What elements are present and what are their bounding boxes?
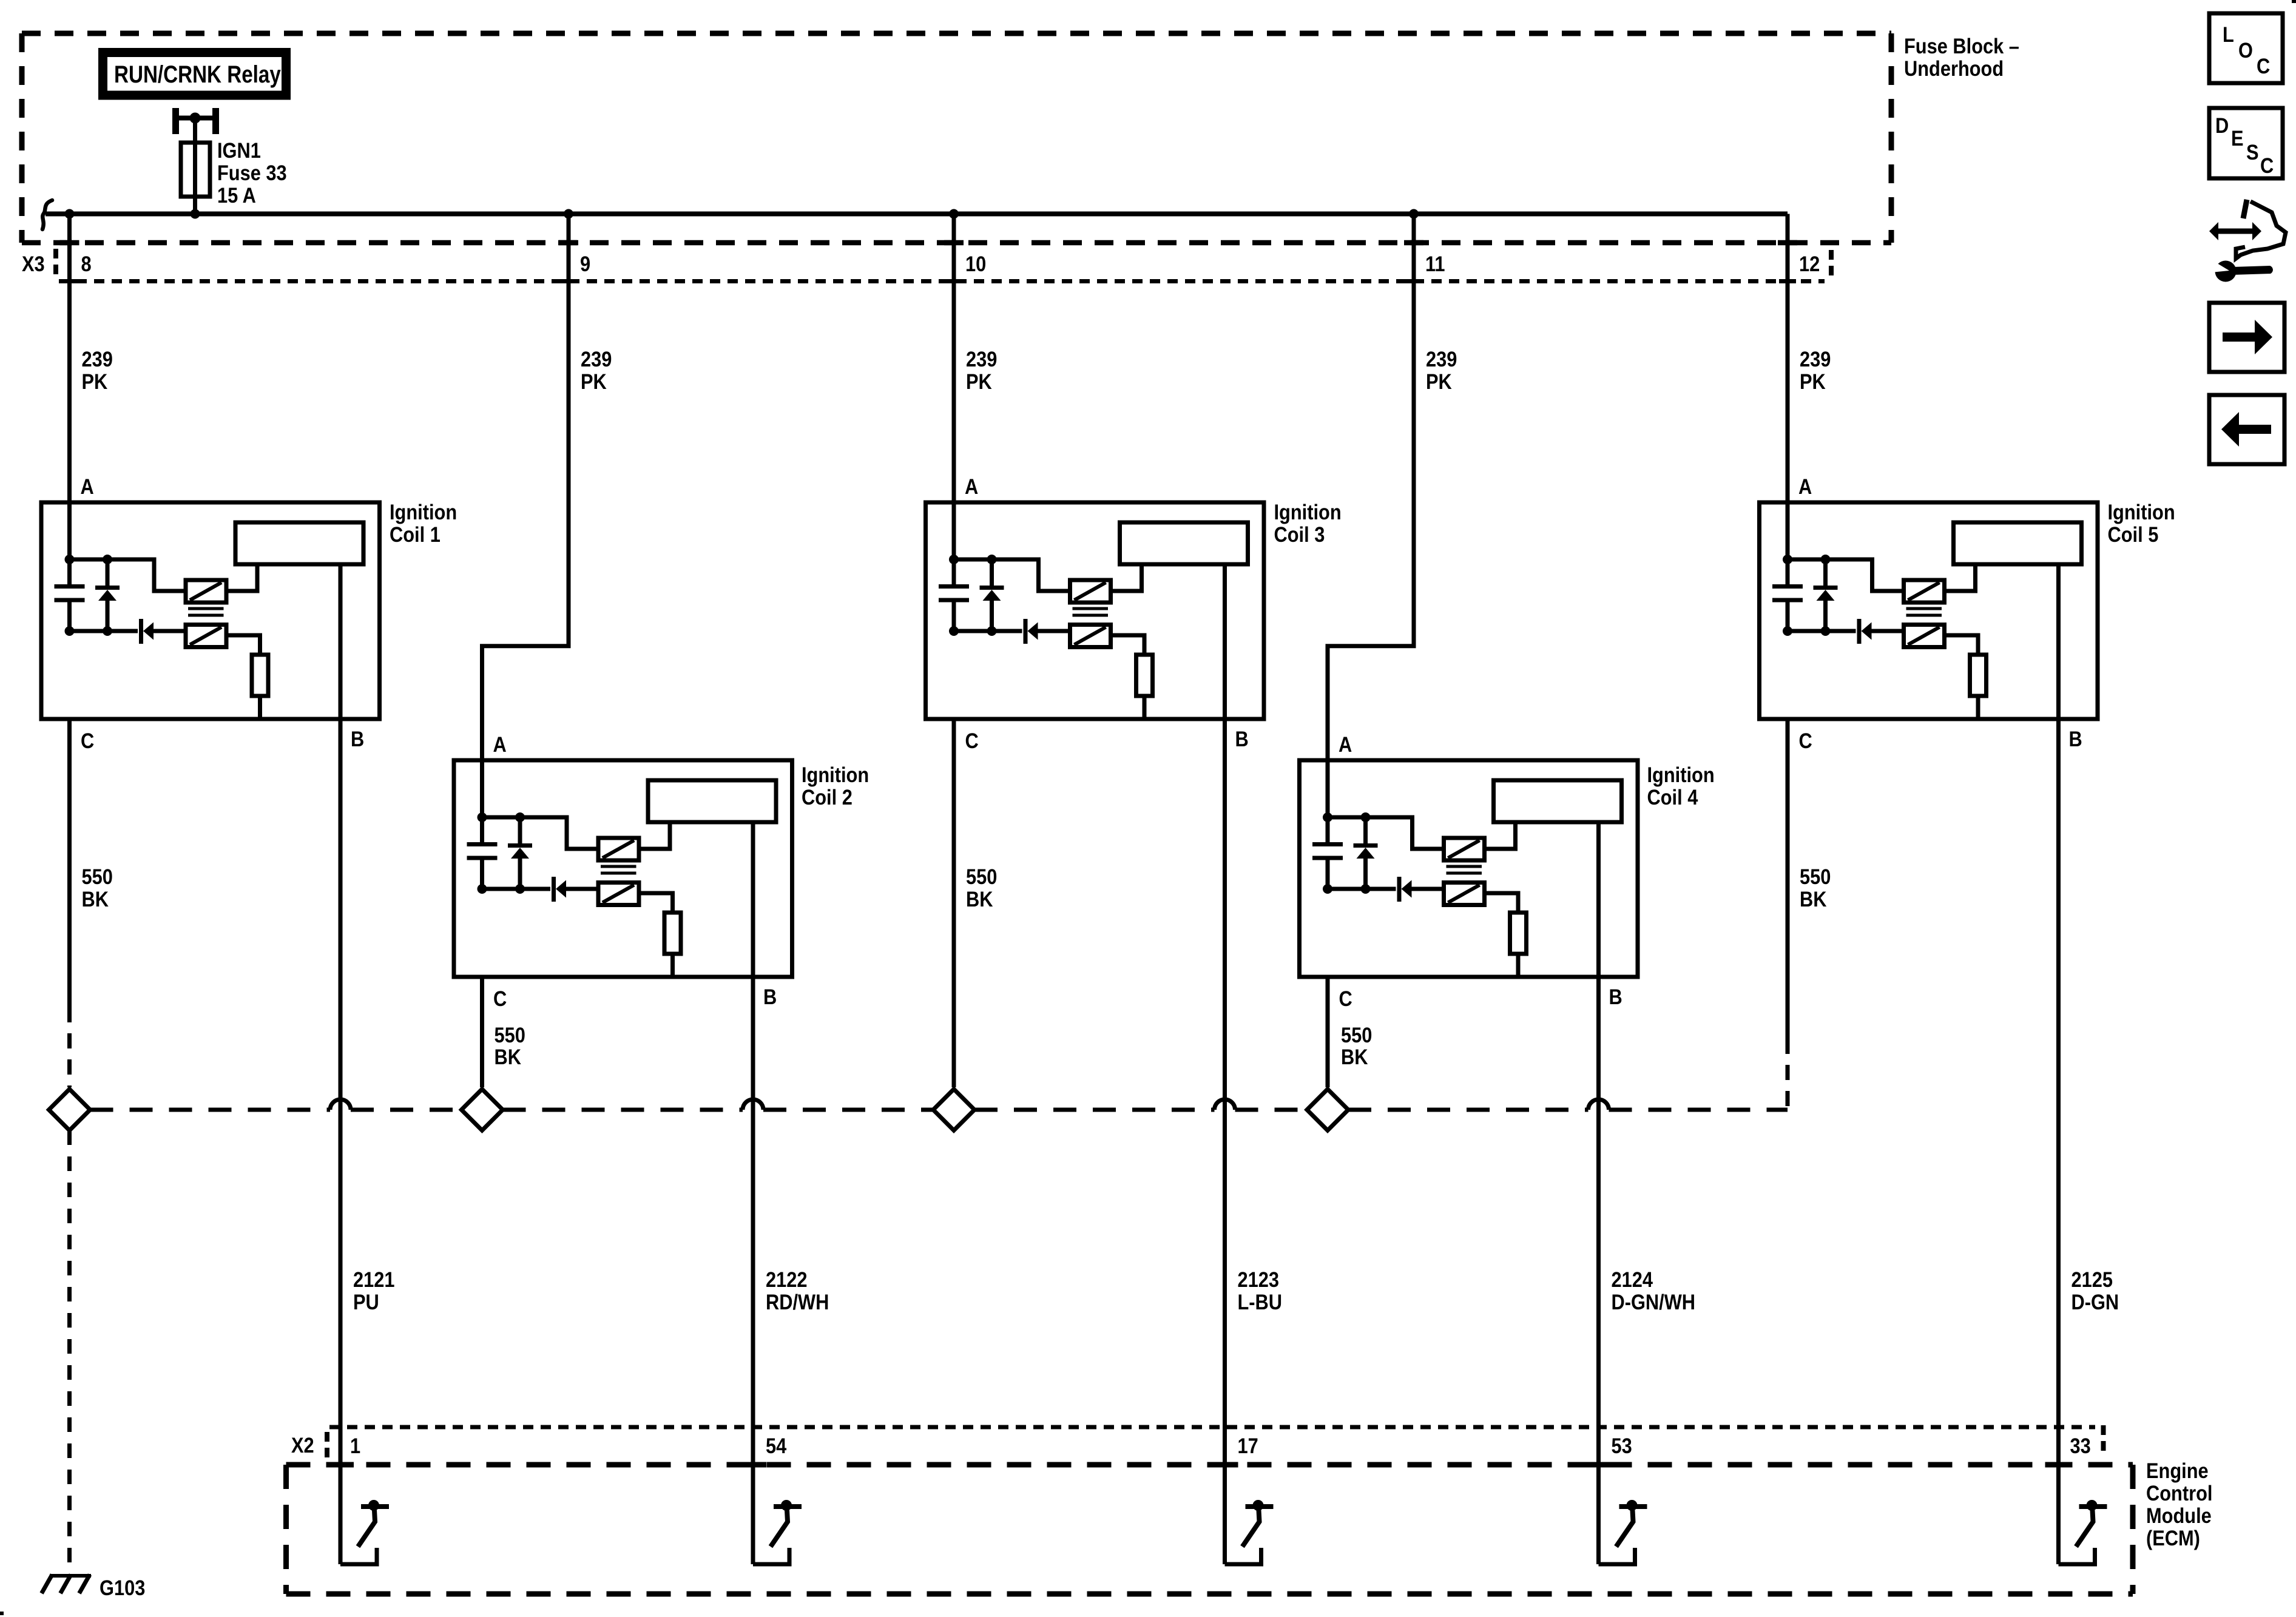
svg-text:BK: BK [1800,887,1827,911]
svg-text:A: A [1798,474,1812,498]
svg-text:O: O [2238,38,2253,62]
svg-text:RD/WH: RD/WH [766,1290,829,1314]
splice diamond S1 (coil1) [49,1089,90,1130]
svg-text:239: 239 [82,347,113,371]
splice ground bus dashed segment 4 [763,1108,933,1112]
junction dot bus/pin8 [65,209,75,219]
hop over wire 2124 [1589,1099,1609,1110]
wire 2121 PU from coil B to ECM [339,564,343,1564]
svg-text:Ignition: Ignition [2108,500,2175,524]
junction dots (Ignition Coil 4) [1323,812,1332,822]
svg-text:239: 239 [1426,347,1457,371]
junction dot bus/fuse [191,209,200,219]
wire 550 BK from coil 5 pin C (dashed to splice) [1786,1039,1790,1110]
svg-text:A: A [1339,732,1352,756]
relay pin bracket [172,108,179,134]
wire pin A inside (Ignition Coil 3) [952,502,956,559]
svg-text:17: 17 [1238,1434,1258,1457]
junction dot at relay pin [190,113,201,124]
wire secondary to resistor (Ignition Coil 5) [1945,635,1979,655]
fuse block underhood dashed box (left border) [19,33,25,243]
svg-text:BK: BK [1341,1045,1368,1068]
junction dots (Ignition Coil 1) [65,555,75,564]
wire secondary to resistor (Ignition Coil 1) [226,635,260,655]
junction dot bus/pin10 [949,209,959,219]
splice diamond S2 (coil2) [462,1089,503,1130]
resistor (Ignition Coil 1) [252,655,268,696]
capacitor (Ignition Coil 5) [1786,559,1790,585]
svg-text:Fuse Block –: Fuse Block – [1904,34,2019,58]
resistor (Ignition Coil 4) [1510,913,1527,954]
connector ticks on fuse-block bottom line at wires [60,240,79,246]
wire primary to driver block (Ignition Coil 4) [1485,825,1516,849]
coil driver block (Ignition Coil 3) [1120,522,1248,564]
ECM dashed box right border [2130,1465,2136,1594]
ignition coil 2 module box [454,760,792,977]
wire 550 BK from coil 2 pin C [480,977,484,1087]
wire primary to driver block (Ignition Coil 5) [1945,567,1976,592]
node top rail (Ignition Coil 2) [482,817,599,849]
splice diamond S4 (coil4) [1307,1089,1348,1130]
diode D2 series (Ignition Coil 2) [552,877,556,902]
svg-text:C: C [965,729,979,752]
hop over wire 2121 [330,1099,351,1110]
svg-text:15 A: 15 A [217,183,256,207]
coil driver block (Ignition Coil 5) [1954,522,2082,564]
svg-text:PU: PU [353,1290,379,1314]
icon box arrow left [2209,395,2284,464]
svg-text:550: 550 [1341,1023,1372,1047]
transformer primary winding (Ignition Coil 4) [1444,838,1485,860]
transformer secondary winding (Ignition Coil 4) [1444,883,1485,905]
diode D1 vertical (Ignition Coil 5) [1823,559,1828,586]
page corner mark top-right [2292,0,2296,3]
wire pin B inside (Ignition Coil 4) [1596,822,1601,977]
wire 239 PK to coil 4 pin A (jog) [1328,214,1414,818]
wire 239 PK to coil 1 pin A [67,214,72,560]
svg-text:B: B [2069,727,2082,751]
node bottom rail (Ignition Coil 4) [1328,887,1396,891]
wire secondary to resistor (Ignition Coil 3) [1111,635,1145,655]
wire: ignition feed bus inside fuse block [46,212,1788,217]
svg-text:2124: 2124 [1612,1268,1653,1291]
resistor lead to case (Ignition Coil 4) [1516,954,1521,979]
svg-text:Underhood: Underhood [1904,56,2004,80]
junction dots (Ignition Coil 2) [478,812,487,822]
svg-text:A: A [81,474,94,498]
resistor lead to case (Ignition Coil 3) [1143,696,1147,721]
connector X3 separator dashes [53,249,58,274]
svg-text:D-GN/WH: D-GN/WH [1612,1290,1696,1314]
transformer primary winding (Ignition Coil 1) [186,580,226,603]
wire pin A inside (Ignition Coil 5) [1786,502,1790,559]
connector X2 dotted line [329,1425,2095,1430]
wire 550 BK from coil 1 pin C (dashed) [67,1007,72,1087]
transformer secondary winding (Ignition Coil 2) [598,883,639,905]
svg-text:550: 550 [966,865,997,888]
splice ground bus dashed segment 1 [90,1108,331,1112]
svg-text:239: 239 [966,347,997,371]
wire 550 BK from coil 1 pin C (solid) [67,719,72,1007]
node top rail (Ignition Coil 4) [1328,817,1444,849]
wire 239 PK to coil 3 pin A [952,214,956,560]
svg-text:54: 54 [766,1434,787,1457]
splice ground bus dashed segment 7 [1348,1108,1589,1112]
svg-text:C: C [1799,729,1812,752]
ECM driver switch at pin (wire 2122) [753,1548,789,1564]
svg-text:C: C [1339,987,1352,1010]
ground symbol G103 [50,1574,91,1578]
ECM dashed box bottom border [286,1592,2133,1597]
transformer core (Ignition Coil 1) [188,607,224,610]
wire secondary to resistor (Ignition Coil 2) [639,893,673,913]
wire pin A inside (Ignition Coil 1) [67,502,72,559]
diode D2 series (Ignition Coil 5) [1857,619,1862,644]
svg-text:Coil 1: Coil 1 [390,522,441,546]
svg-text:B: B [1609,985,1622,1008]
svg-text:BK: BK [495,1045,522,1068]
svg-text:C: C [81,729,94,752]
splice ground bus dashed segment 2 [351,1108,462,1112]
svg-text:(ECM): (ECM) [2146,1526,2200,1550]
svg-text:Ignition: Ignition [390,500,457,524]
wire 2125 D-GN from coil B to ECM [2056,564,2061,1564]
transformer secondary winding (Ignition Coil 3) [1070,625,1111,647]
svg-text:Coil 2: Coil 2 [802,785,853,809]
splice ground bus dashed segment 3 [503,1108,743,1112]
svg-text:E: E [2231,126,2244,150]
resistor lead to case (Ignition Coil 2) [670,954,675,979]
svg-text:S: S [2246,140,2259,164]
svg-text:BK: BK [966,887,993,911]
ECM dashed box left border [283,1465,289,1594]
node bottom rail (Ignition Coil 5) [1788,629,1856,633]
ignition coil 4 module box [1300,760,1638,977]
ignition coil 3 module box [926,502,1264,719]
wire from relay to fuse [193,118,197,145]
node bottom rail (Ignition Coil 1) [70,629,138,633]
svg-text:2122: 2122 [766,1268,807,1291]
pin 12 separator dashes [1829,250,1834,275]
svg-text:PK: PK [581,370,607,393]
svg-text:Ignition: Ignition [802,763,869,786]
svg-text:IGN1: IGN1 [217,138,261,162]
ignition coil 5 module box [1760,502,2098,719]
wire pin B inside (Ignition Coil 3) [1223,564,1227,719]
hop over wire 2123 [1215,1099,1235,1110]
connector X2 separator dashes [325,1432,329,1457]
node top rail (Ignition Coil 1) [70,559,186,591]
svg-text:1: 1 [350,1434,360,1457]
svg-text:PK: PK [1426,370,1452,393]
resistor (Ignition Coil 3) [1136,655,1153,696]
transformer core (Ignition Coil 5) [1906,607,1942,610]
svg-text:L: L [2223,22,2234,46]
ECM driver switch at pin (wire 2124) [1599,1548,1635,1564]
wire 2123 L-BU from coil B to ECM [1223,564,1227,1564]
wire continuation curl at left bus end [42,200,52,229]
wire primary to driver block (Ignition Coil 1) [226,567,257,592]
transformer primary winding (Ignition Coil 2) [598,838,639,860]
svg-text:Coil 5: Coil 5 [2108,522,2159,546]
svg-text:X2: X2 [291,1433,314,1457]
wire pin A inside (Ignition Coil 2) [480,760,484,817]
icon tool/harness (double arrow) [2218,229,2253,234]
svg-text:239: 239 [1800,347,1831,371]
transformer core (Ignition Coil 3) [1073,607,1109,610]
resistor lead to case (Ignition Coil 5) [1976,696,1980,721]
wire pin B inside (Ignition Coil 2) [751,822,755,977]
diode D1 vertical (Ignition Coil 2) [518,817,522,843]
svg-text:C: C [2257,54,2270,78]
diode D1 vertical (Ignition Coil 3) [990,559,994,586]
node bottom rail (Ignition Coil 3) [954,629,1022,633]
transformer core (Ignition Coil 2) [601,865,636,868]
transformer secondary winding (Ignition Coil 1) [186,625,226,647]
splice ground bus dashed segment 6 [1235,1108,1308,1112]
wire 239 PK to coil 2 pin A (jog) [482,214,569,818]
svg-text:B: B [763,985,777,1008]
fuse block underhood dashed box (top border) [22,31,1891,36]
svg-text:Control: Control [2146,1481,2212,1505]
node top rail (Ignition Coil 5) [1788,559,1904,591]
svg-text:A: A [493,732,507,756]
transformer secondary winding (Ignition Coil 5) [1904,625,1945,647]
diode D2 series (Ignition Coil 1) [139,619,143,644]
splice diamond S3 (coil3) [933,1089,974,1130]
svg-text:PK: PK [1800,370,1826,393]
svg-text:BK: BK [82,887,109,911]
svg-text:C: C [2260,154,2274,177]
svg-text:9: 9 [580,252,590,275]
wire primary to driver block (Ignition Coil 2) [639,825,670,849]
resistor (Ignition Coil 2) [664,913,681,954]
wire 239 PK to coil 5 pin A [1786,214,1790,560]
coil driver block (Ignition Coil 2) [648,780,776,822]
capacitor (Ignition Coil 2) [480,817,484,843]
pin 33 separator dashes [2101,1425,2106,1457]
wire through fuse to bus [193,144,197,214]
svg-text:12: 12 [1799,252,1820,275]
page corner mark bottom-left [0,1612,4,1615]
svg-text:RUN/CRNK Relay: RUN/CRNK Relay [114,61,281,88]
ECM driver switch at pin (wire 2121) [340,1548,377,1564]
svg-text:2121: 2121 [353,1268,394,1291]
capacitor (Ignition Coil 4) [1326,817,1330,843]
diode D1 vertical (Ignition Coil 4) [1363,817,1368,843]
fuse block underhood dashed box (bottom border / connector X3 top line) [22,240,1891,246]
ground lead dashed below splice [67,1130,72,1574]
wire pin B inside (Ignition Coil 5) [2056,564,2061,719]
wire 550 BK from coil 4 pin C [1326,977,1330,1087]
svg-text:550: 550 [495,1023,525,1047]
fuse IGN1 Fuse 33 15A (rectangle) [181,143,210,197]
wire 2122 RD/WH from coil B to ECM [751,822,755,1564]
node top rail (Ignition Coil 3) [954,559,1070,591]
relay RUN/CRNK Relay box [103,53,286,96]
wire 550 BK from coil 5 pin C (solid) [1786,719,1790,1039]
diode D2 series (Ignition Coil 4) [1397,877,1402,902]
svg-text:2125: 2125 [2071,1268,2113,1291]
svg-text:Ignition: Ignition [1274,500,1342,524]
icon box LOC [2209,13,2283,83]
connector X3 dotted line [59,279,1825,283]
wire secondary to resistor (Ignition Coil 4) [1485,893,1519,913]
transformer core (Ignition Coil 4) [1447,865,1482,868]
svg-text:PK: PK [82,370,108,393]
svg-text:PK: PK [966,370,992,393]
svg-text:Fuse 33: Fuse 33 [217,161,287,184]
svg-text:Engine: Engine [2146,1459,2209,1482]
svg-text:2123: 2123 [1238,1268,1279,1291]
transformer primary winding (Ignition Coil 5) [1904,580,1945,603]
hop over wire 2122 [743,1099,763,1110]
svg-text:G103: G103 [100,1576,145,1599]
coil driver block (Ignition Coil 4) [1494,780,1622,822]
svg-text:B: B [351,727,364,751]
svg-text:A: A [965,474,978,498]
fuse block underhood dashed box (right border) [1889,33,1894,243]
svg-text:33: 33 [2070,1434,2091,1457]
coil driver block (Ignition Coil 1) [235,522,363,564]
junction dot bus/pin11 [1409,209,1419,219]
svg-text:B: B [1235,727,1249,751]
capacitor (Ignition Coil 3) [952,559,956,585]
icon tool/harness (wrench) [2232,266,2273,275]
transformer primary winding (Ignition Coil 3) [1070,580,1111,603]
svg-text:Ignition: Ignition [1647,763,1715,786]
svg-text:D: D [2215,113,2229,137]
junction dot bus/pin9 [564,209,573,219]
ECM dashed box top border [286,1462,2133,1468]
svg-text:L-BU: L-BU [1238,1290,1283,1314]
ignition coil 1 module box [41,502,380,719]
svg-text:X3: X3 [22,252,45,275]
svg-text:550: 550 [82,865,113,888]
wire pin A inside (Ignition Coil 4) [1326,760,1330,817]
capacitor (Ignition Coil 1) [67,559,72,585]
svg-text:Module: Module [2146,1504,2212,1527]
svg-text:239: 239 [581,347,612,371]
svg-text:8: 8 [81,252,92,275]
svg-text:11: 11 [1425,252,1445,275]
icon box arrow right [2209,303,2284,372]
junction dots (Ignition Coil 3) [949,555,959,564]
svg-text:D-GN: D-GN [2071,1290,2119,1314]
icon tool/harness (outline shape) [2236,201,2286,258]
icon box DESC [2209,108,2283,178]
splice ground bus dashed segment 5 [974,1108,1215,1112]
junction dots (Ignition Coil 5) [1783,555,1792,564]
diode D2 series (Ignition Coil 3) [1024,619,1028,644]
wire primary to driver block (Ignition Coil 3) [1111,567,1142,592]
node bottom rail (Ignition Coil 2) [482,887,551,891]
svg-text:550: 550 [1800,865,1831,888]
svg-text:10: 10 [965,252,986,275]
resistor lead to case (Ignition Coil 1) [258,696,262,721]
ticks on ECM top border at wires [327,1462,354,1468]
wire pin B inside (Ignition Coil 1) [339,564,343,719]
svg-text:C: C [493,987,507,1010]
diode D1 vertical (Ignition Coil 1) [106,559,110,586]
svg-text:53: 53 [1612,1434,1632,1457]
splice ground bus dashed segment 8 [1609,1108,1788,1112]
resistor (Ignition Coil 5) [1970,655,1987,696]
svg-text:Coil 4: Coil 4 [1647,785,1698,809]
wire 550 BK from coil 3 pin C [952,719,956,1087]
wire 2124 D-GN/WH from coil B to ECM [1596,822,1601,1564]
ECM driver switch at pin (wire 2123) [1225,1548,1261,1564]
ECM driver switch at pin (wire 2125) [2059,1548,2095,1564]
svg-text:Coil 3: Coil 3 [1274,522,1325,546]
